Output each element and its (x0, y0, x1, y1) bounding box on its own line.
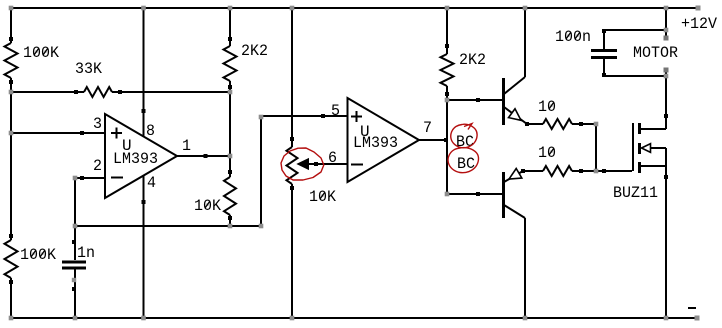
wire U1 pin 4 ground (143, 176, 145, 318)
resistor R5 10K (RC charge) (224, 177, 236, 215)
wire R7 bottom lead (446, 86, 448, 100)
junction motor at top rail (664, 6, 669, 11)
pin tick Q1 emitter (525, 122, 529, 126)
pin tick U2 pin6 (314, 162, 318, 166)
wire left rail lower (10, 278, 12, 318)
wire Q2 collector to ground (524, 218, 526, 318)
pin tick pot bottom (290, 186, 294, 190)
capacitor C2 100n (591, 30, 617, 76)
junction cap node right (259, 224, 264, 229)
resistor R8 10 (upper gate) (543, 119, 572, 129)
wire pin 2 input (75, 177, 105, 179)
wire C2 top (604, 29, 666, 31)
wire left rail upper (10, 8, 12, 43)
junction R7 at top rail (445, 6, 450, 11)
pin tick U1 pin8 (142, 109, 146, 113)
wire R5 bottom lead (229, 215, 231, 226)
pin tick C1 top (72, 240, 76, 244)
wire left rail middle (10, 78, 12, 240)
svg-text:MOTOR: MOTOR (633, 44, 678, 62)
svg-text:1n: 1n (77, 244, 95, 262)
pin tick C2 top (602, 29, 606, 33)
junction bottom-left rail (9, 316, 14, 321)
annotation red circle around BC label 2 (448, 148, 478, 173)
resistor R9 10 (lower gate) (543, 166, 572, 176)
pin tick R7 bottom (445, 92, 449, 96)
junction node B (R4/33K) (228, 90, 233, 95)
svg-text:LM393: LM393 (113, 150, 158, 168)
motor M1 pin top (664, 36, 669, 41)
svg-text:33K: 33K (75, 60, 102, 78)
label minus (ground) (688, 307, 696, 309)
wire C2 bottom (604, 75, 666, 77)
svg-text:LM393: LM393 (353, 134, 398, 152)
wire pin 3 input (11, 132, 105, 134)
svg-text:6: 6 (328, 149, 337, 167)
svg-text:2K2: 2K2 (241, 42, 268, 60)
svg-text:3: 3 (93, 115, 102, 133)
wire node A to 33K (11, 91, 84, 93)
wire Q2 emitter to R9 (523, 170, 543, 172)
wire pot bottom lead (291, 184, 293, 318)
wire cap node up to pin5 (260, 117, 262, 226)
pin tick R2 top (9, 234, 13, 238)
pin tick Q3 drain (664, 114, 668, 118)
wire Q3 source down (665, 166, 667, 318)
pin tick R4 bottom (228, 85, 232, 89)
svg-text:10: 10 (538, 98, 556, 116)
junction Q1 collector at rail (523, 6, 528, 11)
svg-text:10K: 10K (194, 197, 221, 215)
svg-text:5: 5 (331, 102, 340, 120)
wire Q3 drain up (665, 76, 667, 129)
pin tick R9 right (579, 169, 583, 173)
wire 33K to 2K2 node (112, 91, 230, 93)
potentiometer R6 10K (287, 147, 298, 184)
svg-text:4: 4 (147, 174, 156, 192)
resistor R3 33K (84, 87, 112, 97)
junction pin4 at rail (141, 316, 146, 321)
pin tick U1 pin3 (80, 131, 84, 135)
annotation red circle around pot wiper (281, 148, 324, 180)
wire pin2 down to cap node (74, 178, 76, 226)
svg-text:BUZ11: BUZ11 (613, 184, 658, 202)
svg-text:10: 10 (538, 144, 556, 162)
svg-text:100K: 100K (23, 44, 59, 62)
annotation red circle around BC label 1 (451, 124, 477, 148)
pin tick U2 pin7 (444, 138, 448, 142)
junction pin3 tap (9, 131, 14, 136)
pin tick U1 pin1 (204, 154, 208, 158)
pin tick Q2 base (476, 192, 480, 196)
wire gate node vertical (595, 124, 597, 171)
junction motor/cap top (664, 28, 669, 33)
resistor R1 100K (top left) (5, 43, 18, 78)
wire U1 output pin 1 (177, 155, 230, 157)
transistor Q1 NPN BC (504, 77, 528, 125)
pin tick C2 bottom (602, 73, 606, 77)
annotation red arrow hook on circle 1 (464, 124, 472, 130)
wire R4 bottom lead (229, 81, 231, 92)
wire pin 5 input (261, 115, 347, 117)
wire cap node horizontal (75, 225, 261, 227)
wire pot top lead (291, 8, 293, 147)
wire base bus vertical (446, 100, 448, 194)
junction pin8 at rail (141, 6, 146, 11)
junction cap node R5 (228, 224, 233, 229)
wire R8 to gate node (572, 123, 596, 125)
pin tick Q2 emitter (521, 169, 525, 173)
resistor R7 2K2 (pullup U2) (441, 54, 454, 86)
pin tick R5 bottom (228, 216, 232, 220)
wire top +12V rail (11, 7, 698, 9)
wire bottom ground rail (11, 317, 697, 319)
pin tick U1 pin2 (80, 176, 84, 180)
svg-text:1: 1 (182, 137, 191, 155)
transistor Q2 PNP BC (504, 169, 526, 219)
junction base node top (445, 98, 450, 103)
resistor R4 2K2 (pullup U1) (224, 46, 237, 81)
capacitor C1 1n (62, 226, 86, 318)
wire 2K2 R4 top lead (229, 8, 231, 46)
ground terminal (695, 316, 700, 321)
junction node A (divider/33K) (9, 90, 14, 95)
junction motor/cap bottom (664, 74, 669, 79)
svg-text:8: 8 (146, 122, 155, 140)
svg-text:+12V: +12V (681, 15, 717, 33)
pin tick R5 top (228, 170, 232, 174)
wire motor feed from rail (665, 8, 667, 30)
svg-text:2: 2 (93, 157, 102, 175)
junction pin2 node (73, 176, 78, 181)
wire U1 pin 8 supply (143, 8, 145, 136)
pin tick U2 pin5 (321, 114, 325, 118)
wire wiper to pin 6 (299, 163, 347, 165)
wire Q1 collector to rail (524, 8, 526, 77)
junction pot at top rail (290, 6, 295, 11)
wire U2 output pin 7 (419, 139, 447, 141)
wire R5 top lead (229, 156, 231, 177)
wire node B down to pin1 (229, 92, 231, 156)
junction source at ground rail (664, 316, 669, 321)
junction gate node upper (594, 122, 599, 127)
transistor Q3 BUZ11 N-MOSFET (633, 123, 666, 173)
svg-text:100K: 100K (20, 246, 56, 264)
junction top-left rail (9, 6, 14, 11)
wire R7 top lead (446, 8, 448, 54)
junction pot at ground rail (290, 316, 295, 321)
pin tick Q3 gate (602, 169, 606, 173)
svg-text:7: 7 (423, 119, 432, 137)
pin tick R3 right (118, 90, 122, 94)
junction pin5 node (259, 115, 264, 120)
pot wiper arrow (298, 159, 309, 170)
svg-text:2K2: 2K2 (459, 51, 486, 69)
pin tick R1 top (9, 37, 13, 41)
pin tick Q1 base (476, 98, 480, 102)
pin tick R3 left (74, 90, 78, 94)
junction pin1 node (228, 154, 233, 159)
junction R4 at top rail (228, 6, 233, 11)
op-amp U1 LM393 (first comparator) (105, 114, 177, 198)
wire R9 to gate node (572, 170, 596, 172)
pin tick R7 top (445, 44, 449, 48)
junction base node bottom (445, 192, 450, 197)
pin tick R1 bottom (9, 80, 13, 84)
wire motor top pin lead (665, 30, 667, 37)
wire gate lead (596, 170, 632, 172)
junction cap node left (73, 224, 78, 229)
wire Q1 base (447, 99, 502, 101)
resistor R2 100K (bottom left) (5, 240, 18, 278)
motor M1 pin bottom (664, 68, 669, 73)
junction gate node lower (594, 169, 599, 174)
junction C1 at ground rail (73, 316, 78, 321)
pin tick pot top (290, 137, 294, 141)
gray marker C1 bottom lead (72, 278, 76, 282)
pin tick Q3 source (664, 175, 668, 179)
op-amp U2 LM393 (second comparator) (348, 98, 420, 182)
wire Q2 base (447, 193, 502, 195)
pin tick R2 bottom (9, 280, 13, 284)
svg-text:100n: 100n (555, 28, 591, 46)
pin tick R4 top (228, 37, 232, 41)
pin tick U1 pin4 (142, 200, 146, 204)
junction Q2 collector at rail (523, 316, 528, 321)
wire motor bottom pin lead (665, 71, 667, 76)
wire Q1 emitter to R8 (527, 123, 543, 125)
svg-text:10K: 10K (309, 188, 336, 206)
pin tick R8 right (579, 122, 583, 126)
pin tick C1 bottom (72, 287, 76, 291)
+12V terminal (696, 6, 701, 11)
